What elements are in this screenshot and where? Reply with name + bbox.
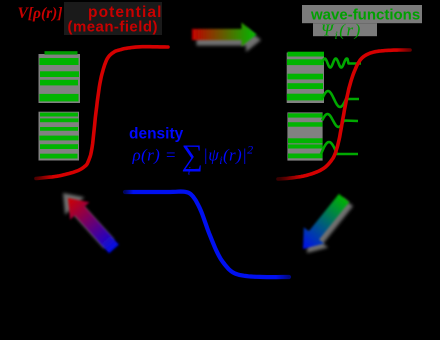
left arrow shadow <box>63 193 114 248</box>
svg-text:V[ρ(r)]: V[ρ(r)] <box>18 5 63 22</box>
energy levels lower-left <box>40 113 78 117</box>
svg-text:(mean-field): (mean-field) <box>68 19 158 36</box>
right potential curve (red) <box>278 50 410 179</box>
grey block upper-left <box>39 54 81 103</box>
wavefunction squiggle 2 <box>322 91 359 107</box>
grey block lower-right <box>287 112 322 160</box>
energy levels upper-left <box>45 51 78 54</box>
svg-text:i: i <box>188 164 191 178</box>
potential label highlight box <box>64 2 162 35</box>
top arrow (red to green) <box>192 23 257 47</box>
energy levels lower-right <box>288 113 323 117</box>
top arrow shadow <box>197 28 262 52</box>
svg-text:density: density <box>129 126 184 143</box>
grey block upper-right <box>287 53 324 103</box>
wavefunction squiggle 1 <box>322 59 361 68</box>
right arrow (green to blue) <box>303 194 349 249</box>
left potential curve (red) <box>36 47 168 179</box>
right arrow shadow <box>307 198 353 253</box>
left arrow (blue to red) <box>68 198 119 253</box>
density curve (blue) <box>125 192 289 278</box>
grey block lower-left <box>39 112 80 161</box>
wave-functions highlight box <box>302 5 422 23</box>
svg-text:Ψi(r): Ψi(r) <box>321 21 362 43</box>
wave-functions sub box <box>313 23 377 36</box>
wavefunction squiggle 4 <box>321 142 358 154</box>
wavefunction squiggle 3 <box>322 114 358 127</box>
energy levels upper-right <box>288 52 325 57</box>
